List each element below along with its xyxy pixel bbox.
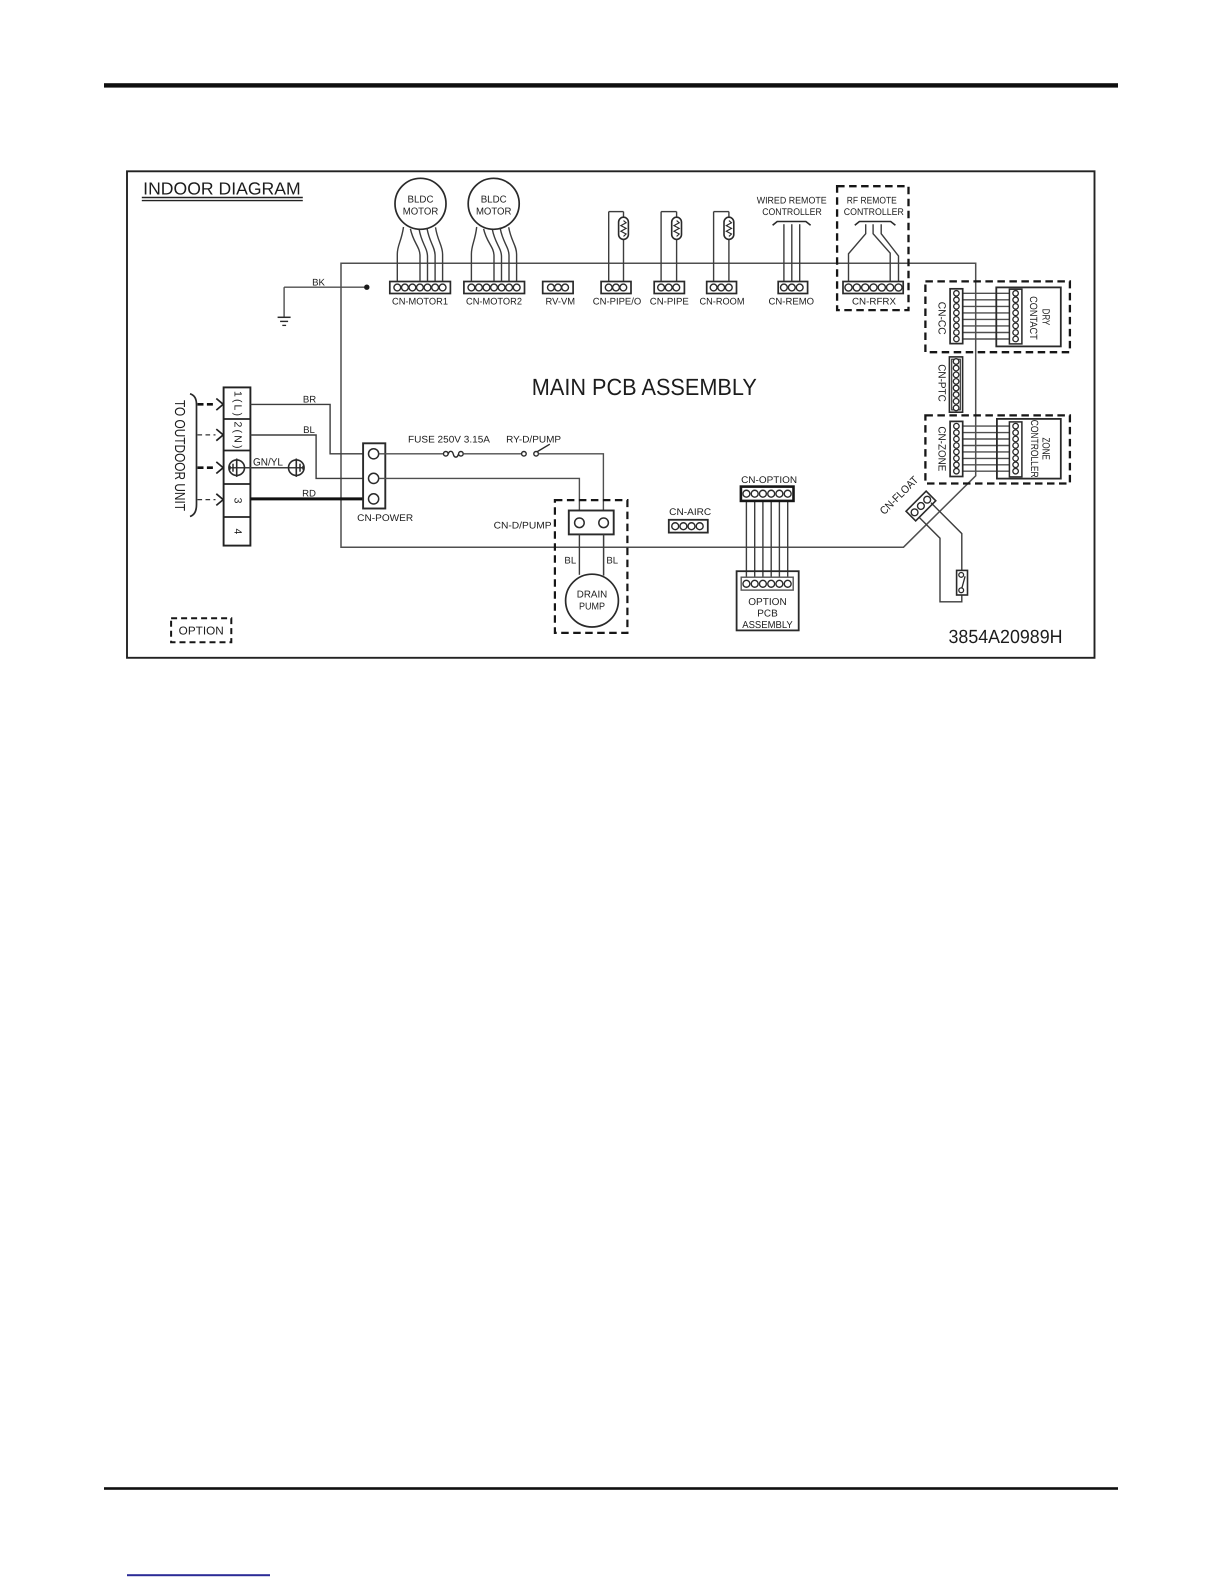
- svg-text:RV-VM: RV-VM: [546, 296, 576, 307]
- svg-text:CONTACT: CONTACT: [1027, 296, 1039, 340]
- svg-text:MOTOR: MOTOR: [403, 206, 439, 217]
- svg-text:BLDC: BLDC: [481, 194, 507, 205]
- svg-text:3854A20989H: 3854A20989H: [949, 627, 1063, 648]
- svg-text:RY-D/PUMP: RY-D/PUMP: [506, 435, 561, 446]
- svg-text:RF REMOTE: RF REMOTE: [847, 195, 897, 206]
- svg-text:CN-POWER: CN-POWER: [357, 513, 413, 524]
- svg-text:ZONE: ZONE: [1040, 437, 1052, 460]
- svg-text:OPTION: OPTION: [179, 626, 224, 638]
- svg-text:BR: BR: [303, 394, 316, 405]
- svg-text:BL: BL: [606, 556, 618, 567]
- svg-text:DRY: DRY: [1039, 309, 1051, 326]
- svg-text:CN-D/PUMP: CN-D/PUMP: [494, 520, 552, 531]
- svg-text:BK: BK: [312, 277, 325, 288]
- svg-text:PCB: PCB: [757, 609, 778, 620]
- svg-text:ASSEMBLY: ASSEMBLY: [742, 620, 793, 631]
- svg-text:RD: RD: [302, 489, 316, 500]
- svg-text:CN-PIPE/O: CN-PIPE/O: [593, 296, 642, 307]
- svg-text:MAIN PCB ASSEMBLY: MAIN PCB ASSEMBLY: [532, 374, 757, 400]
- svg-text:INDOOR DIAGRAM: INDOOR DIAGRAM: [143, 178, 300, 198]
- svg-text:CN-CC: CN-CC: [935, 302, 947, 335]
- svg-text:DRAIN: DRAIN: [577, 589, 608, 600]
- svg-text:OPTION: OPTION: [748, 597, 787, 608]
- svg-text:CN-ZONE: CN-ZONE: [935, 426, 947, 471]
- svg-text:CN-PTC: CN-PTC: [935, 364, 947, 402]
- svg-text:CN-PIPE: CN-PIPE: [650, 296, 689, 307]
- svg-text:MOTOR: MOTOR: [476, 206, 512, 217]
- svg-text:CN-ROOM: CN-ROOM: [700, 296, 745, 307]
- svg-text:TO OUTDOOR UNIT: TO OUTDOOR UNIT: [171, 400, 187, 511]
- svg-text:CONTROLLER: CONTROLLER: [844, 207, 904, 218]
- svg-text:CN-AIRC: CN-AIRC: [669, 507, 711, 518]
- svg-text:CN-REMO: CN-REMO: [769, 296, 815, 307]
- svg-text:FUSE 250V 3.15A: FUSE 250V 3.15A: [408, 435, 491, 446]
- svg-text:CN-RFRX: CN-RFRX: [852, 296, 897, 307]
- svg-text:BLDC: BLDC: [408, 194, 434, 205]
- svg-text:GN/YL: GN/YL: [253, 456, 283, 468]
- svg-text:BL: BL: [564, 556, 576, 567]
- svg-text:2(N): 2(N): [231, 422, 243, 449]
- svg-text:4: 4: [231, 528, 243, 534]
- svg-text:CN-MOTOR1: CN-MOTOR1: [392, 296, 448, 307]
- svg-text:CN-OPTION: CN-OPTION: [741, 475, 797, 486]
- svg-text:BL: BL: [303, 425, 315, 436]
- svg-text:PUMP: PUMP: [579, 602, 605, 613]
- svg-text:CN-MOTOR2: CN-MOTOR2: [466, 296, 522, 307]
- svg-text:3: 3: [231, 498, 243, 504]
- svg-text:CONTROLLER: CONTROLLER: [762, 207, 822, 218]
- svg-text:CONTROLLER: CONTROLLER: [1028, 420, 1040, 478]
- svg-text:WIRED REMOTE: WIRED REMOTE: [757, 195, 827, 206]
